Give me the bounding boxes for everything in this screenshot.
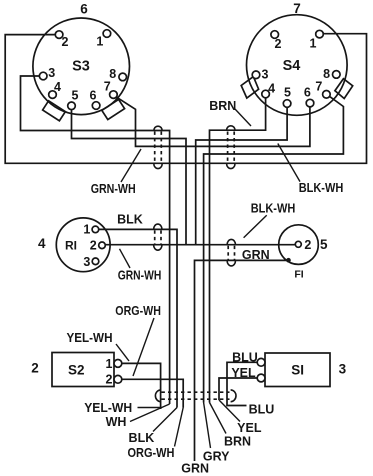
svg-text:6: 6 xyxy=(304,86,311,100)
svg-text:6: 6 xyxy=(90,88,97,102)
svg-text:1: 1 xyxy=(96,35,103,49)
wire S3 pin2 to S4 pin1 (outer loop) xyxy=(5,34,366,164)
S3 pin 4 xyxy=(49,91,57,99)
connector S4 body xyxy=(246,15,347,116)
R1 pin 3 xyxy=(92,258,99,265)
S4 pin 1 xyxy=(316,30,324,38)
S3 pin 8 xyxy=(119,73,127,81)
svg-text:4: 4 xyxy=(54,80,61,94)
svg-text:S2: S2 xyxy=(68,362,85,377)
svg-text:4: 4 xyxy=(268,82,275,96)
svg-text:GRN: GRN xyxy=(181,462,209,476)
svg-text:GRY: GRY xyxy=(203,450,230,464)
switch S1 body xyxy=(265,353,330,387)
cable clamp top-right xyxy=(227,126,235,169)
wire S2 pin1 YEL-WH xyxy=(122,363,161,409)
svg-text:ORG-WH: ORG-WH xyxy=(115,304,161,318)
S4 pin 2 xyxy=(271,31,279,39)
S2 pin bump 2 xyxy=(114,375,122,383)
leader ORG-WH bottom xyxy=(175,408,184,447)
svg-text:3: 3 xyxy=(83,255,90,269)
svg-text:5: 5 xyxy=(284,86,291,100)
svg-text:YEL: YEL xyxy=(231,366,256,380)
leader YEL bottom xyxy=(219,400,240,422)
resistor R1 body xyxy=(56,218,110,272)
svg-text:BLU: BLU xyxy=(232,350,258,364)
wire S3 pin3 WH xyxy=(21,76,170,404)
svg-text:3: 3 xyxy=(48,66,55,80)
S3 pin 3 xyxy=(39,72,47,80)
wire S3 pin5 xyxy=(72,110,187,245)
svg-text:BRN: BRN xyxy=(224,434,251,448)
leader BLK-WH lower xyxy=(244,215,267,237)
wire S4 pin7 GRY xyxy=(204,96,344,402)
wire S4 pin4 BRN xyxy=(210,98,266,403)
svg-text:8: 8 xyxy=(109,67,116,81)
S3 pin 7 xyxy=(110,91,118,99)
S4 pin 5 xyxy=(283,100,291,108)
cable clamp R1 xyxy=(154,224,162,250)
wire R1 pin1 BLK xyxy=(99,229,177,407)
R1 pin 1 xyxy=(92,226,99,233)
fuse F1 body xyxy=(279,225,319,265)
junction dot F1 case xyxy=(286,258,291,263)
S4 keying tab right xyxy=(335,79,353,99)
svg-text:3: 3 xyxy=(339,362,347,377)
svg-text:SI: SI xyxy=(291,363,304,378)
svg-text:GRN-WH: GRN-WH xyxy=(118,268,162,282)
S4 pin 4 xyxy=(262,90,270,98)
S4 pin 6 xyxy=(306,99,314,107)
svg-text:FI: FI xyxy=(294,269,303,281)
svg-text:BLU: BLU xyxy=(249,402,275,416)
S1 pin bump YEL xyxy=(257,374,265,382)
F1 pin 2 xyxy=(295,241,301,247)
S3 keying tab left xyxy=(43,101,66,121)
svg-text:YEL-WH: YEL-WH xyxy=(84,401,132,415)
leader BRN xyxy=(235,109,251,126)
svg-text:8: 8 xyxy=(323,67,330,81)
svg-text:YEL: YEL xyxy=(237,421,262,435)
svg-text:RI: RI xyxy=(65,239,77,253)
svg-text:1: 1 xyxy=(310,37,317,51)
svg-text:ORG-WH: ORG-WH xyxy=(128,446,175,460)
leader BRN bottom xyxy=(210,403,227,434)
wire R1 pin2 to F1 pin2 xyxy=(105,244,295,246)
S3 pin 1 xyxy=(103,30,111,38)
svg-text:2: 2 xyxy=(304,238,311,252)
svg-text:GRN-WH: GRN-WH xyxy=(91,182,136,196)
wire S4 pin5 xyxy=(196,107,287,244)
svg-text:BLK-WH: BLK-WH xyxy=(251,202,296,216)
cable clamp top-left xyxy=(154,126,162,168)
svg-text:5: 5 xyxy=(320,237,328,252)
wire S2 pin2 ORG-WH xyxy=(122,379,183,407)
leader GRY xyxy=(204,403,211,449)
leader BLK-WH upper xyxy=(278,144,300,182)
svg-text:1: 1 xyxy=(83,223,90,237)
S3 keying tab right xyxy=(102,99,125,119)
S4 keying tab left xyxy=(241,77,258,98)
svg-text:7: 7 xyxy=(315,80,322,94)
svg-text:2: 2 xyxy=(90,239,97,253)
wire S1 YEL xyxy=(219,378,257,400)
switch S2 body xyxy=(52,353,114,387)
S4 pin 7 xyxy=(323,91,331,99)
svg-text:4: 4 xyxy=(38,236,46,251)
svg-text:2: 2 xyxy=(106,373,113,387)
leader YEL-WH S2 xyxy=(116,344,129,361)
connector S3 body xyxy=(33,18,130,115)
wire S1 BLU xyxy=(227,362,257,405)
svg-text:5: 5 xyxy=(72,88,79,102)
leader dash YEL-WH bottom xyxy=(138,407,161,409)
svg-text:2: 2 xyxy=(275,37,282,51)
S4 pin 8 xyxy=(333,71,341,79)
S2 pin bump 1 xyxy=(114,360,122,368)
leader WH xyxy=(130,404,170,422)
S3 pin 5 xyxy=(68,102,76,110)
leader BLK bottom xyxy=(153,408,177,432)
svg-text:7: 7 xyxy=(293,1,301,16)
S3 pin 6 xyxy=(92,102,100,110)
svg-text:BLK: BLK xyxy=(129,431,155,445)
svg-text:WH: WH xyxy=(106,415,127,429)
R1 pin 2 xyxy=(99,242,106,249)
S3 pin 2 xyxy=(55,31,63,39)
svg-text:1: 1 xyxy=(106,357,113,371)
svg-text:BLK: BLK xyxy=(117,213,143,227)
svg-text:6: 6 xyxy=(80,2,88,17)
leader GRN-WH R1 xyxy=(120,249,131,268)
leader GRN-WH xyxy=(121,149,141,182)
cable clamp F1 xyxy=(227,239,235,266)
cable clamp bottom xyxy=(155,390,236,402)
wire S3 pin7 to S4 pin6 xyxy=(117,97,310,146)
svg-text:YEL-WH: YEL-WH xyxy=(67,331,113,345)
svg-text:BLK-WH: BLK-WH xyxy=(299,181,344,195)
svg-text:S3: S3 xyxy=(72,59,90,75)
svg-text:7: 7 xyxy=(104,80,111,94)
svg-text:S4: S4 xyxy=(283,58,301,74)
leader ORG-WH S2 xyxy=(133,318,154,376)
svg-text:BRN: BRN xyxy=(209,99,236,113)
svg-text:GRN: GRN xyxy=(242,248,270,262)
S4 pin 3 xyxy=(252,71,260,79)
svg-text:3: 3 xyxy=(262,68,269,82)
S1 pin bump BLU xyxy=(257,358,265,366)
svg-text:2: 2 xyxy=(31,360,39,375)
svg-text:2: 2 xyxy=(62,35,69,49)
wire F1 case GRN xyxy=(195,260,289,461)
